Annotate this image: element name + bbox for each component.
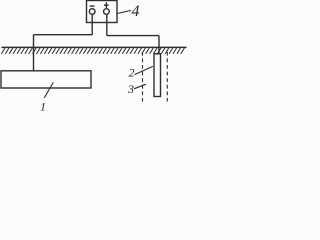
wire vertical drop to rod electrode xyxy=(158,36,160,54)
terminal plus sign xyxy=(104,2,109,8)
ground surface hatching xyxy=(1,48,184,54)
leader line for label 4 xyxy=(117,10,131,13)
wire horizontal right run xyxy=(107,35,159,37)
svg-text:2: 2 xyxy=(129,66,135,80)
boundary dashed line left xyxy=(142,52,144,102)
plate electrode 1 (horizontal strip) xyxy=(1,71,91,88)
terminal minus binding post (circle) xyxy=(89,9,95,15)
terminal plus binding post (circle) xyxy=(104,9,110,15)
rod electrode 2 (vertical) xyxy=(154,54,161,97)
boundary dashed line right xyxy=(166,52,168,102)
terminal minus sign xyxy=(90,5,95,7)
wire horizontal left run xyxy=(34,34,93,36)
leader line for label 2 xyxy=(135,66,153,74)
wire from minus terminal down xyxy=(91,14,93,35)
leader line for label 1 xyxy=(44,82,53,97)
svg-text:3: 3 xyxy=(127,82,134,96)
ground surface line xyxy=(2,46,187,48)
wire from plus terminal down xyxy=(106,14,108,35)
measuring instrument U (box) xyxy=(87,1,118,23)
svg-text:4: 4 xyxy=(132,3,140,20)
svg-text:1: 1 xyxy=(40,100,46,114)
leader line for label 3 xyxy=(134,84,146,89)
wire vertical drop to plate electrode xyxy=(33,35,35,71)
